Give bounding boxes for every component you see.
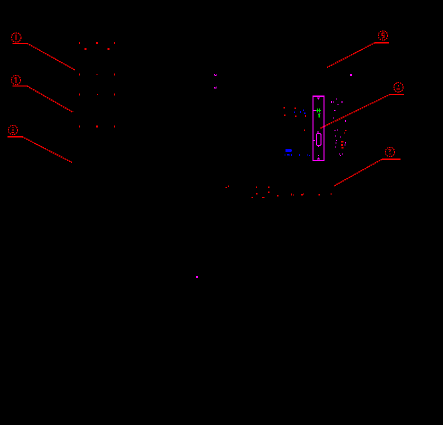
- CN1 pin1 tick: [313, 110, 316, 111]
- pad grid J1 row A: [79, 42, 115, 127]
- silkscreen text right of CN1 (magenta dots): [331, 99, 346, 156]
- via dot near top right: [350, 74, 352, 76]
- pad P2 green stem: [318, 114, 320, 118]
- callout 4 (mid-right balloon): [390, 83, 404, 95]
- wire leader 1: [27, 43, 75, 70]
- pad grid J1 row B: [85, 48, 87, 50]
- pad P1 green hash: [316, 109, 321, 113]
- bottom text row (red marks): [226, 186, 332, 199]
- wire leader 3R: [334, 159, 382, 186]
- bottom copper marks left of CN1 (blue): [294, 110, 305, 114]
- CN1 inner dot: [318, 155, 319, 156]
- callout 1 (top-left balloon): [12, 33, 27, 44]
- slot bottom tick: [318, 146, 319, 148]
- callout 1 (second balloon, mid-left): [11, 75, 27, 86]
- red marks right of CN1: [341, 130, 346, 149]
- silkscreen mark M2: [214, 87, 217, 89]
- CN1 slot: [316, 134, 321, 146]
- blue text row: [285, 154, 311, 156]
- copper dots left of CN1 (red): [284, 107, 306, 131]
- silkscreen mark M1: [214, 74, 217, 76]
- via dot bottom left area: [196, 276, 198, 278]
- wire leader 4: [320, 94, 390, 128]
- wire leader 2: [27, 86, 73, 112]
- blue arrow label: [285, 149, 292, 152]
- connector outline CN1: [313, 96, 324, 160]
- CN1 top arrow: [317, 97, 321, 100]
- magenta dash under pad: [318, 112, 320, 115]
- callout 5 (top-right balloon): [375, 31, 389, 43]
- CN1 left tick 2: [313, 140, 315, 141]
- wire leader 5: [327, 43, 375, 68]
- pad grid J1 row E: [79, 125, 80, 127]
- callout 2 (bottom-left balloon): [8, 125, 24, 136]
- pad grid J1 row C: [79, 74, 80, 76]
- callout 3 (bottom-right balloon): [382, 147, 401, 159]
- slot top tick: [318, 131, 319, 133]
- pad grid J1 row D: [79, 94, 80, 96]
- wire leader 3: [22, 137, 72, 163]
- CN1 bottom arrow: [317, 157, 320, 159]
